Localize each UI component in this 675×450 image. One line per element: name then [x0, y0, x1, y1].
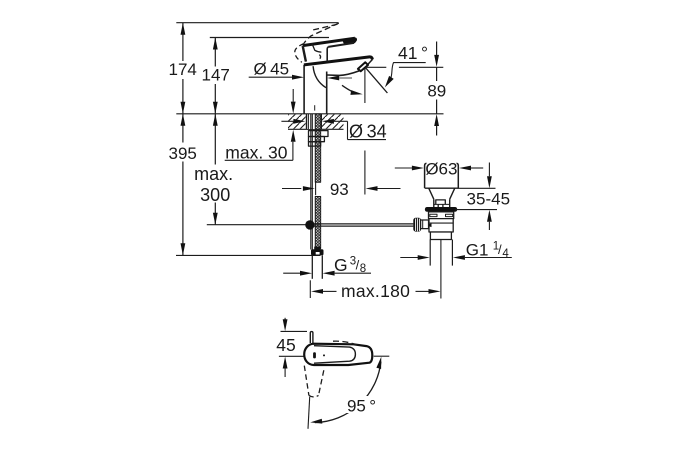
dimension G1 1/4 — [400, 257, 418, 259]
svg-text:Ø63: Ø63 — [425, 159, 457, 178]
handle inner surface line — [314, 346, 355, 364]
valve upper body with slots — [429, 212, 454, 219]
faucet body left edge — [303, 65, 305, 114]
faucet axis centerline stub — [314, 105, 316, 110]
spout root curve on body — [313, 66, 326, 88]
countertop deck top line — [176, 113, 443, 115]
svg-text:max. 30: max. 30 — [225, 142, 288, 162]
dashed handle rotated bottom cap — [309, 395, 319, 397]
bottom reference line of 395 — [176, 254, 321, 256]
svg-text:G1: G1 — [466, 240, 489, 259]
dimension G3/8 — [283, 272, 300, 274]
dimension line 174 vertical — [182, 23, 184, 61]
handle center dot — [323, 354, 325, 356]
drain valve flange — [425, 163, 459, 188]
handle outline (top view) — [304, 344, 372, 365]
ball joint dot — [305, 220, 314, 229]
handle screw slot mark — [313, 352, 316, 358]
rotated handle axis line — [308, 397, 310, 429]
ball joint boss — [421, 220, 429, 229]
dimension Ø34 arrows — [281, 120, 293, 122]
right reference line at handle tip — [374, 355, 390, 357]
dashed handle outline above — [333, 341, 358, 345]
dashed raised lever upper edge — [313, 24, 337, 30]
reference line to pop-up rod (max.300 bottom) — [207, 224, 306, 226]
spout tip face — [364, 59, 373, 69]
lever motion arc with arrow — [342, 85, 359, 94]
dimension 35-45 — [488, 163, 490, 177]
shank white backdrop in deck — [306, 114, 322, 129]
dimension line 395 vertical — [182, 114, 184, 143]
svg-text:41 °: 41 ° — [398, 43, 428, 63]
svg-text:89: 89 — [427, 82, 446, 101]
valve seal disc (black) — [425, 207, 457, 212]
valve neck taper — [429, 188, 434, 199]
svg-text:174: 174 — [169, 60, 197, 79]
dimension line 147 vertical — [214, 38, 216, 67]
spout top edge (thick) — [304, 57, 373, 65]
svg-text:93: 93 — [330, 180, 349, 199]
top reference line 147 — [210, 37, 329, 39]
svg-text:147: 147 — [202, 66, 230, 85]
deck hatched section right — [322, 114, 344, 128]
top reference line 174 — [176, 22, 338, 24]
dimension line max.300 vertical — [214, 114, 216, 165]
deck hatched section left — [288, 114, 306, 128]
label Ø34 with underline leader — [347, 121, 349, 139]
arc arrowhead bottom — [310, 419, 322, 424]
41 degree horizontal reference — [365, 66, 386, 68]
svg-text:8: 8 — [360, 263, 366, 275]
aerator outlet — [358, 62, 368, 71]
svg-text:395: 395 — [169, 144, 197, 163]
svg-text:max.180: max.180 — [341, 281, 410, 301]
svg-text:45: 45 — [276, 335, 295, 355]
bottom view: 45 bottom reference line — [279, 355, 305, 357]
svg-text:95 °: 95 ° — [347, 397, 376, 416]
spout outlet vertical reference lower — [364, 151, 366, 195]
pull rod stub — [310, 332, 313, 343]
dashed raised lever lower edge — [304, 23, 339, 43]
label Ø63 on white box — [427, 161, 457, 178]
hose crimp fitting — [314, 247, 320, 250]
dimension 45 arrows — [284, 318, 286, 320]
lever tip — [354, 38, 356, 43]
tailpipe edges — [429, 240, 431, 266]
tailpipe centerline — [440, 240, 442, 299]
svg-text:300: 300 — [200, 185, 230, 205]
svg-text:Ø 45: Ø 45 — [254, 60, 290, 79]
faucet body right edge — [326, 72, 328, 114]
dimension 93 — [282, 188, 301, 190]
rod clamp mark — [426, 223, 432, 227]
svg-text:Ø 34: Ø 34 — [349, 122, 387, 142]
valve mid body — [429, 219, 453, 232]
lever tip solid wedge — [342, 38, 356, 44]
label 95 degrees — [344, 396, 378, 413]
svg-text:4: 4 — [502, 248, 509, 260]
dimension Ø63 arrows — [395, 167, 412, 169]
spout underside — [328, 71, 360, 76]
svg-text:max.: max. — [194, 164, 233, 184]
bottom view: 45 top reference line — [281, 330, 308, 332]
mounting nut step 1 — [309, 131, 329, 137]
braided supply hose upper — [315, 114, 321, 183]
horizontal pop-up rod to drain — [314, 223, 413, 225]
svg-text:/: / — [498, 242, 502, 257]
dimension max.180 — [309, 280, 311, 298]
valve lift pin — [436, 200, 446, 207]
lever back face — [303, 46, 306, 62]
cartridge detail lines — [312, 43, 322, 52]
lever paddle top edge (thick) — [303, 38, 355, 45]
41 degree leader with arrow — [391, 63, 394, 78]
knurled knob (black) — [413, 218, 421, 232]
valve lower body — [430, 232, 451, 240]
dimension 89 vertical — [436, 42, 438, 56]
41 degree diagonal line — [365, 67, 387, 93]
svg-text:G: G — [334, 255, 348, 275]
braided supply hose lower — [315, 197, 321, 249]
95 degree arc — [315, 362, 381, 423]
dashed handle rotated down left edge — [304, 366, 309, 396]
lever underside — [328, 43, 354, 47]
svg-text:35-45: 35-45 — [467, 190, 510, 209]
G3/8 connection tube — [311, 255, 313, 278]
arc arrowhead top — [376, 357, 381, 369]
mounting nut step 2 — [309, 137, 325, 142]
deck bottom line — [288, 128, 344, 130]
dashed handle rotated down right edge — [319, 370, 324, 395]
pop-up pull rod (vertical) — [310, 114, 312, 250]
dashed raised lever back arc — [295, 44, 304, 63]
shank wall lines — [305, 114, 307, 130]
lever stem right edge — [327, 47, 328, 62]
mounting nut step 3 — [309, 142, 321, 146]
spout outlet vertical reference upper — [364, 68, 366, 103]
